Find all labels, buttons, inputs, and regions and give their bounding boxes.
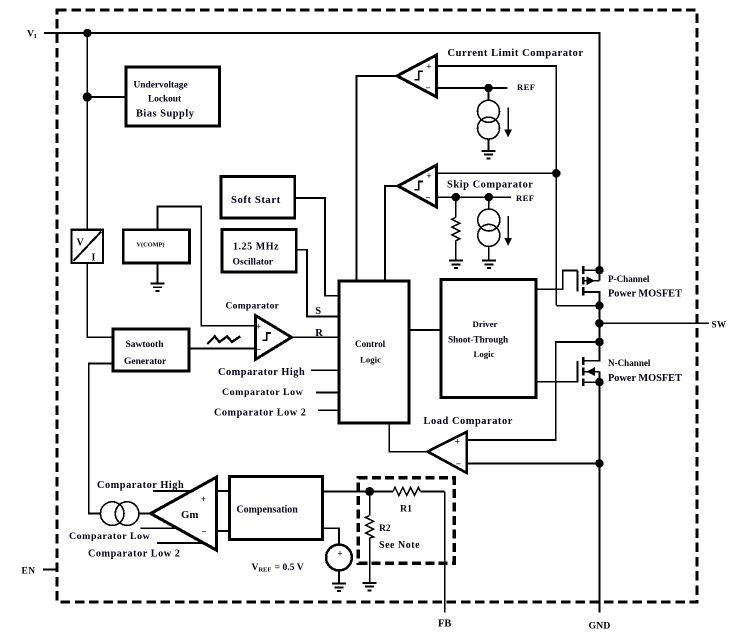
svg-text:Power MOSFET: Power MOSFET	[608, 289, 682, 300]
hysteresis symbol PWM comparator	[263, 333, 272, 340]
wire V(COMP) to PWM comparator + input	[158, 207, 256, 326]
svg-text:Comparator Low: Comparator Low	[222, 387, 304, 398]
block sawtooth generator	[113, 329, 189, 371]
wire skip comparator + input	[437, 172, 557, 174]
wire compensation to VREF source	[323, 528, 339, 544]
svg-text:See Note: See Note	[379, 540, 420, 551]
node junction Q1 drain	[596, 267, 603, 274]
gate plate Q1	[576, 271, 578, 292]
wire VI vertical branch	[86, 33, 88, 230]
svg-text:REF: REF	[516, 193, 534, 203]
svg-text:Comparator Low 2: Comparator Low 2	[214, 408, 306, 419]
wire source sense to rail	[556, 305, 599, 307]
node SW junction	[596, 320, 603, 327]
wire Gm to compensation top	[216, 490, 229, 492]
gate plate Q2	[576, 361, 578, 383]
svg-text:Power MOSFET: Power MOSFET	[608, 373, 682, 384]
svg-text:R1: R1	[400, 503, 412, 514]
node junction VI at x87	[84, 30, 91, 37]
svg-text:Driver: Driver	[473, 319, 498, 329]
svg-text:Bias Supply: Bias Supply	[136, 109, 195, 120]
wire comparator low stub	[316, 392, 339, 394]
wire source Q2	[583, 381, 599, 383]
ground for I2	[482, 261, 496, 269]
svg-text:−: −	[425, 84, 430, 94]
transistor Q1 P-channel power MOSFET	[536, 266, 603, 309]
svg-text:Comparator: Comparator	[226, 302, 280, 312]
svg-text:Generator: Generator	[124, 357, 167, 367]
wire control logic to driver	[409, 329, 441, 331]
svg-text:Logic: Logic	[360, 354, 381, 364]
wire load comparator - input to GND rail	[467, 462, 600, 464]
pin FB wire	[444, 491, 446, 612]
node junction Q2 source	[596, 379, 603, 386]
wire comparator low 2 input stub Gm	[157, 542, 204, 544]
svg-text:Gm: Gm	[181, 509, 198, 521]
svg-text:Shoot-Through: Shoot-Through	[448, 334, 508, 344]
node junction Q2 drain tap	[596, 339, 603, 346]
wire comparator low input stub Gm	[140, 527, 177, 529]
wire bulk Q2	[583, 371, 599, 373]
svg-text:Current Limit Comparator: Current Limit Comparator	[448, 48, 584, 59]
ground for skip resistor	[449, 261, 463, 269]
svg-text:Control: Control	[355, 339, 386, 349]
ground for R2	[363, 583, 377, 591]
svg-text:1.25 MHz: 1.25 MHz	[233, 242, 279, 253]
node junction skip + sense rail	[553, 170, 560, 177]
wire Gm to compensation bottom	[216, 530, 229, 532]
svg-text:Comparator Low: Comparator Low	[69, 531, 151, 542]
node junction UVLO tap	[84, 93, 92, 101]
svg-text:SW: SW	[712, 319, 727, 329]
feedback network dashed box	[358, 478, 454, 564]
resistor skip threshold	[455, 197, 457, 217]
wire SW rail	[598, 306, 600, 342]
node junction feedback divider	[366, 488, 373, 495]
comparator U3 current limit comparator triangle	[397, 55, 437, 97]
wire comparator low 2 stub	[318, 409, 339, 411]
wire V/I to sawtooth generator	[87, 263, 113, 337]
svg-text:+: +	[426, 172, 431, 182]
comparator U5 load comparator triangle	[428, 432, 467, 473]
svg-text:V: V	[77, 238, 85, 249]
svg-text:−: −	[456, 460, 461, 470]
pin EN stub wire	[43, 569, 57, 571]
comparator U4 skip comparator triangle	[398, 165, 436, 207]
wire drain Q2	[583, 342, 599, 361]
svg-text:REF: REF	[517, 82, 535, 92]
arrow current direction I1	[507, 108, 509, 131]
block V(COMP)	[123, 230, 189, 263]
svg-text:+: +	[337, 550, 342, 560]
block 1.25 MHz oscillator	[222, 230, 296, 273]
svg-text:GND: GND	[589, 621, 611, 632]
node junction load comparator tap	[596, 460, 603, 467]
pin SW wire	[599, 322, 709, 324]
svg-text:P-Channel: P-Channel	[608, 274, 650, 284]
svg-text:+: +	[455, 437, 460, 447]
wire current limit comparator output to control logic	[357, 76, 398, 281]
svg-text:Comparator Low 2: Comparator Low 2	[88, 548, 180, 559]
node junction skip resistor tap	[452, 194, 459, 201]
channel segments Q2	[582, 357, 584, 386]
svg-text:−: −	[201, 528, 206, 538]
wire to Undervoltage Lockout box	[87, 96, 126, 98]
svg-text:Compensation: Compensation	[237, 505, 299, 516]
node junction REF current limit	[485, 85, 492, 92]
voltage source VREF 0.5V	[326, 545, 352, 571]
wire gate drive from driver to Q2	[536, 381, 577, 383]
wire V(COMP) to ground	[157, 263, 159, 283]
block V/I converter	[71, 230, 103, 263]
svg-text:+: +	[255, 322, 260, 332]
ground for V(COMP)	[151, 283, 165, 291]
svg-text:Soft Start: Soft Start	[231, 194, 281, 206]
wire sawtooth generator to Gm output current source	[89, 363, 113, 513]
svg-text:+: +	[426, 63, 431, 73]
svg-text:Comparator High: Comparator High	[97, 480, 184, 491]
wire drain Q1	[583, 269, 599, 271]
svg-text:Skip Comparator: Skip Comparator	[447, 179, 533, 190]
arrow current direction I2	[507, 216, 509, 239]
wire current limit comparator + input sense rail	[437, 66, 557, 306]
wire compensation output to feedback network	[323, 491, 370, 493]
wire comparator high input stub Gm	[153, 490, 190, 492]
wire GND rail	[598, 382, 600, 612]
svg-text:Undervoltage: Undervoltage	[134, 80, 188, 90]
block driver shoot-through logic	[441, 279, 536, 397]
block control logic	[339, 281, 409, 423]
resistor R2	[369, 492, 371, 516]
svg-text:Logic: Logic	[474, 349, 495, 359]
wire skip comparator output to control logic	[385, 186, 398, 281]
wire skip comparator - input to REF	[437, 196, 511, 198]
wire sawtooth generator output to comparator - input	[189, 348, 255, 350]
ground for VREF source	[332, 584, 346, 592]
amplifier U6 Gm error amplifier triangle	[151, 477, 217, 550]
hysteresis symbol skip comparator	[414, 182, 423, 190]
block soft start	[221, 176, 295, 218]
pin VI wire / top VI rail	[44, 33, 599, 270]
current source I1 REF	[488, 88, 490, 100]
hysteresis symbol current limit comparator	[414, 71, 423, 79]
current source I2 REF skip	[488, 197, 490, 209]
svg-text:+: +	[201, 495, 206, 505]
transistor Q2 N-channel power MOSFET	[467, 339, 603, 440]
wire oscillator to control logic S input	[296, 250, 339, 317]
block compensation	[229, 476, 322, 539]
svg-text:R2: R2	[379, 523, 391, 534]
svg-text:EN: EN	[22, 567, 36, 577]
svg-text:N-Channel: N-Channel	[608, 358, 651, 368]
channel segments Q1	[582, 266, 584, 296]
block U1 Undervoltage Lockout Bias Supply	[126, 67, 219, 126]
wire comparator high stub	[311, 369, 339, 371]
wire bulk Q1	[598, 270, 600, 281]
svg-text:I: I	[92, 253, 96, 264]
wire gate drive from driver	[536, 271, 577, 290]
svg-text:FB: FB	[438, 619, 451, 630]
current source I3 Gm output	[139, 513, 151, 515]
svg-text:Load Comparator: Load Comparator	[424, 416, 513, 427]
svg-text:Sawtooth: Sawtooth	[126, 340, 165, 350]
wire SW sense to load comparator	[467, 342, 600, 440]
svg-text:Comparator High: Comparator High	[218, 367, 305, 378]
wire comparator output R to control logic	[292, 336, 339, 338]
svg-text:−: −	[425, 194, 430, 204]
node junction skip REF tap	[485, 194, 492, 201]
svg-text:V(COMP): V(COMP)	[137, 241, 165, 248]
wire source Q1	[583, 292, 599, 306]
wire load comparator output to control logic	[389, 423, 427, 452]
sawtooth waveform symbol	[207, 336, 240, 344]
ground for I1	[482, 151, 496, 159]
svg-text:R: R	[315, 328, 323, 339]
wire current limit comparator - input to REF	[437, 87, 508, 89]
svg-text:Oscillator: Oscillator	[233, 257, 274, 268]
svg-text:Lockout: Lockout	[148, 95, 182, 105]
comparator U2 PWM comparator triangle	[255, 315, 291, 359]
node junction Q1 source	[596, 302, 603, 309]
resistor R1	[393, 487, 420, 495]
svg-text:S: S	[315, 306, 321, 317]
wire soft start to control logic	[295, 198, 339, 296]
svg-text:−: −	[256, 346, 261, 356]
